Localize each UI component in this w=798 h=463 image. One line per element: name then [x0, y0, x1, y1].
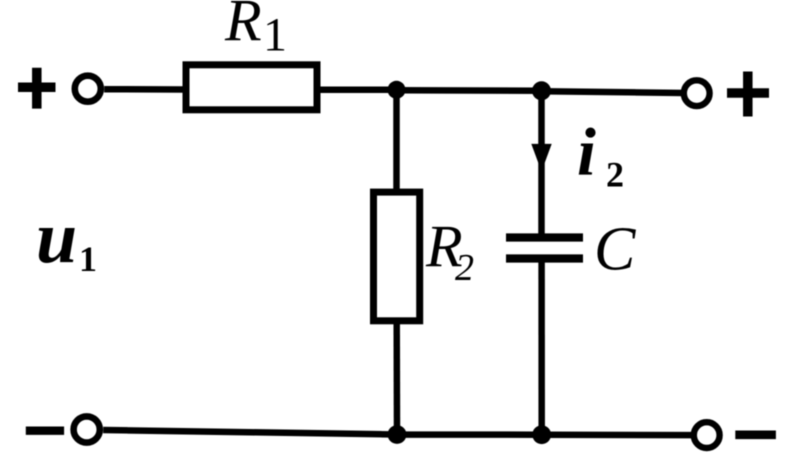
terminal circle (bottom-left): [74, 416, 100, 442]
wire: input terminal to R1: [104, 86, 184, 93]
node A (top junction at R2): [388, 81, 406, 99]
svg-text:2: 2: [606, 155, 624, 195]
svg-text:u: u: [36, 197, 77, 279]
current arrow i2: [531, 144, 551, 172]
svg-text:2: 2: [455, 247, 474, 289]
wire: node D to bottom-right terminal: [542, 432, 694, 439]
resistor R2: [374, 192, 420, 321]
wire: node B to output terminal: [542, 91, 685, 93]
svg-text:C: C: [594, 216, 636, 284]
resistor R1: [186, 65, 317, 110]
polarity plus (top-right): [727, 72, 769, 117]
wire: node B down to capacitor: [538, 91, 545, 237]
svg-text:1: 1: [263, 9, 287, 62]
polarity minus (bottom-left): [26, 427, 64, 435]
polarity minus (bottom-right): [735, 430, 776, 439]
wire: node A down to R2: [393, 90, 400, 192]
terminal circle (top-left input): [75, 76, 101, 102]
capacitor C top plate: [506, 233, 583, 241]
wire: capacitor down to node D: [538, 262, 545, 435]
capacitor C bottom plate: [506, 254, 583, 262]
wire: R1 to node A: [321, 87, 397, 94]
terminal circle (top-right output): [684, 80, 710, 106]
node D (bottom junction at C): [532, 425, 551, 444]
wire: R2 down to node C: [393, 321, 400, 435]
wire: node C to node D: [397, 431, 542, 438]
polarity plus (top-left): [18, 68, 56, 109]
svg-text:R: R: [224, 0, 262, 54]
node C (bottom junction at R2): [388, 425, 407, 444]
svg-text:i: i: [577, 114, 596, 190]
svg-text:1: 1: [79, 239, 97, 279]
terminal circle (bottom-right): [694, 422, 720, 448]
node B (top junction at C): [532, 81, 551, 100]
wire: node A to node B: [397, 87, 542, 94]
wire: bottom-left terminal to node C: [103, 430, 397, 435]
